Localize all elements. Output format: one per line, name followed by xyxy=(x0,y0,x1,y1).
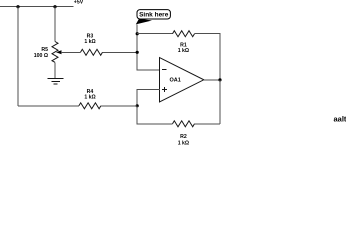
node junction top-left xyxy=(16,5,19,8)
ground xyxy=(48,79,64,84)
callout Sink here xyxy=(136,10,171,25)
wire inverting branch vertical xyxy=(137,24,160,70)
wire top rail xyxy=(0,6,74,8)
svg-text:Sink here: Sink here xyxy=(139,12,169,19)
svg-text:OA1: OA1 xyxy=(170,78,181,84)
wire R4 to node xyxy=(101,105,137,107)
node junction top-pot xyxy=(53,5,56,8)
wire feedback top xyxy=(137,33,172,35)
resistor R3 xyxy=(81,49,103,55)
wire right rail lower xyxy=(219,80,221,124)
resistor R1 xyxy=(173,31,195,37)
svg-text:1 kΩ: 1 kΩ xyxy=(178,140,189,146)
svg-text:100 Ω: 100 Ω xyxy=(34,53,48,59)
svg-text:1 kΩ: 1 kΩ xyxy=(178,48,189,54)
svg-text:+5V: +5V xyxy=(74,0,84,5)
wire op-amp output xyxy=(204,79,220,81)
wire noninverting branch xyxy=(137,90,160,106)
wire R2 left leg xyxy=(137,106,172,124)
wire R1 to right rail xyxy=(195,34,221,80)
wire left vertical xyxy=(17,7,19,106)
resistor R2 xyxy=(173,121,195,127)
node junction noninverting xyxy=(136,104,139,107)
resistor R4 xyxy=(79,103,101,109)
svg-text:aalt: aalt xyxy=(334,115,346,124)
wire R3 to node xyxy=(103,51,138,53)
svg-text:R2: R2 xyxy=(180,134,187,140)
op-amp OA1 xyxy=(160,58,204,102)
svg-text:1 kΩ: 1 kΩ xyxy=(84,39,95,45)
svg-text:1 kΩ: 1 kΩ xyxy=(84,94,95,100)
potentiometer R5 xyxy=(52,42,81,63)
wire pot bottom lead xyxy=(54,62,56,78)
wire pot top lead xyxy=(54,7,56,42)
wire left rail bottom xyxy=(18,105,79,107)
wire R2 to right rail xyxy=(195,123,221,125)
node junction output xyxy=(218,78,221,81)
node junction R1 feedback xyxy=(136,32,139,35)
node junction R3 input xyxy=(136,51,139,54)
